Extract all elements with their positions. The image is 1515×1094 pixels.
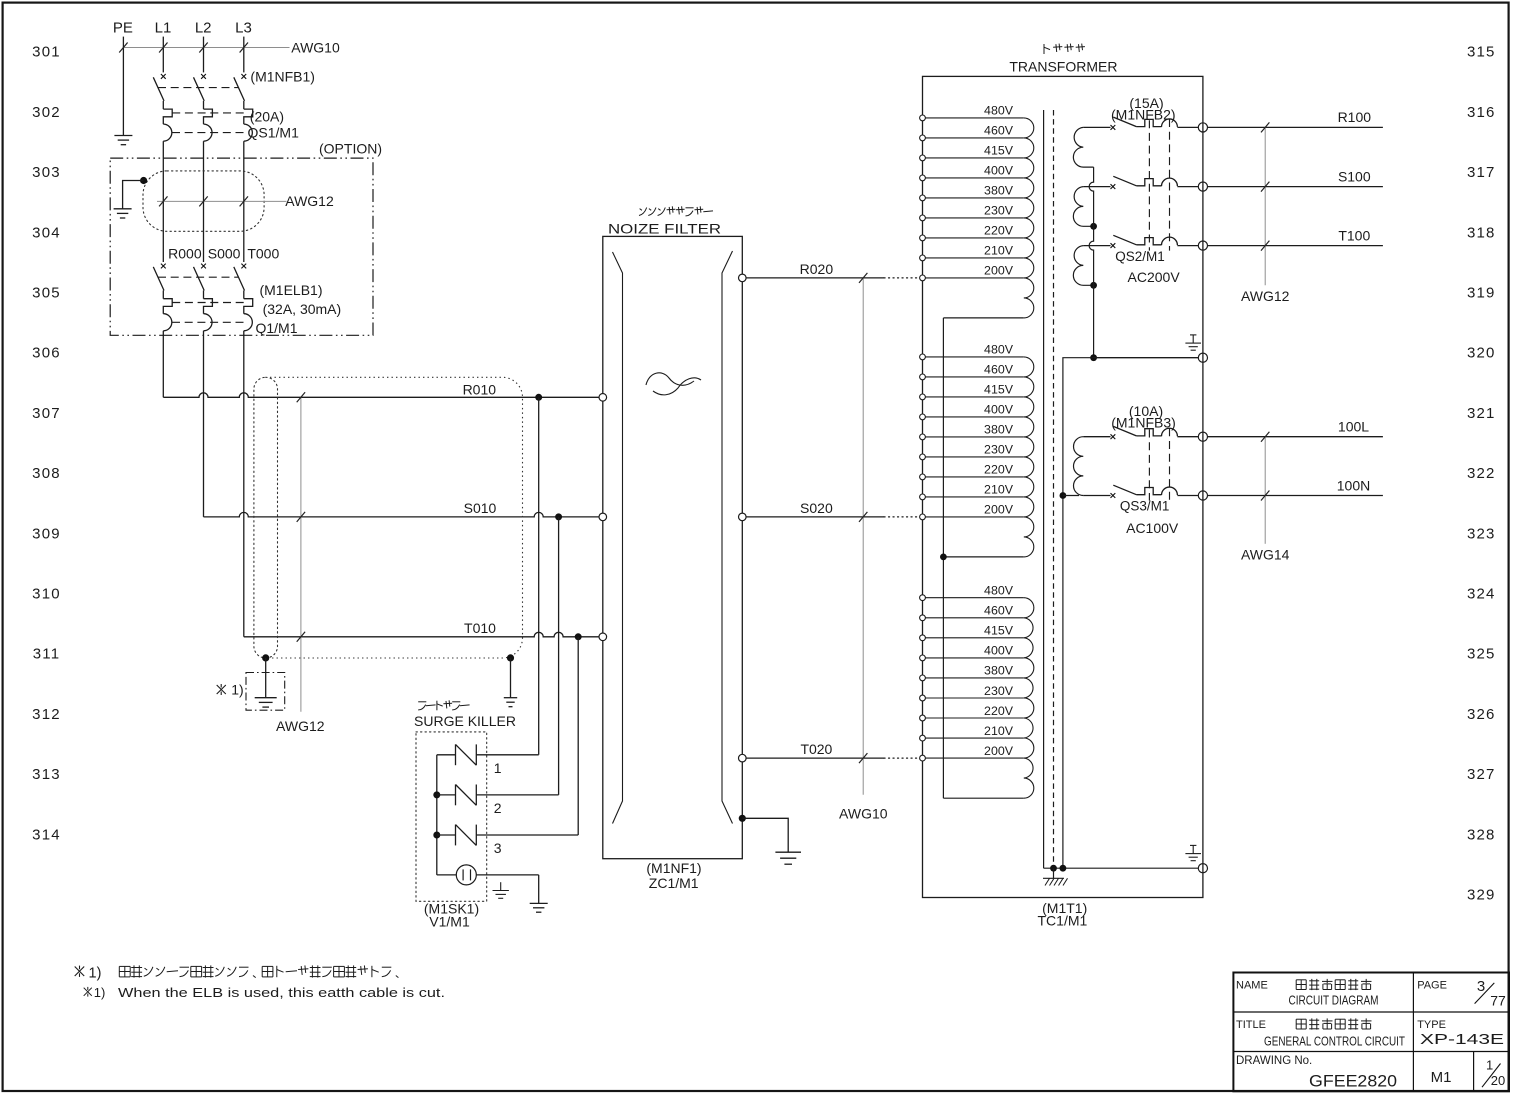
breaker QS2/M1 pole R100 xyxy=(1083,126,1110,128)
svg-text:318: 318 xyxy=(1467,224,1496,241)
terminal ground bottom xyxy=(1198,864,1207,873)
primary group2 tap line 230V xyxy=(923,456,1024,458)
svg-text:PE: PE xyxy=(113,20,133,37)
terminal group3 220V xyxy=(920,715,926,721)
svg-text:200V: 200V xyxy=(984,503,1014,517)
cable slash xyxy=(240,43,248,53)
ground note1 earth xyxy=(265,658,267,698)
core screen line solid xyxy=(1043,110,1045,868)
title block vline main xyxy=(1412,973,1414,1092)
svg-text:QS3/M1: QS3/M1 xyxy=(1120,498,1170,513)
svg-text:1: 1 xyxy=(494,760,502,776)
svg-text:S010: S010 xyxy=(464,500,497,516)
wire L3 QS1 to Q1 xyxy=(243,141,245,262)
svg-text:AWG10: AWG10 xyxy=(291,39,340,55)
svg-text:321: 321 xyxy=(1467,405,1496,422)
cable slash xyxy=(159,43,167,53)
terminal group2 380V xyxy=(920,434,926,440)
svg-text:S100: S100 xyxy=(1338,168,1371,184)
wire S100 out xyxy=(1208,186,1383,188)
svg-text:AWG12: AWG12 xyxy=(276,718,325,734)
wire neutral to ground terminal xyxy=(1094,357,1199,359)
svg-text:305: 305 xyxy=(32,285,61,302)
primary group2 tap line 380V xyxy=(923,436,1024,438)
svg-text:AC200V: AC200V xyxy=(1128,269,1181,285)
breaker QS3/M1 dash link 1 xyxy=(1148,430,1150,501)
svg-text:200V: 200V xyxy=(984,264,1014,278)
node coil T bus dot xyxy=(1090,282,1097,289)
svg-text:AWG12: AWG12 xyxy=(1241,288,1290,304)
terminal group3 415V xyxy=(920,635,926,641)
ground PE xyxy=(114,135,132,137)
svg-text:324: 324 xyxy=(1467,586,1496,603)
primary group3 winding arcs xyxy=(1024,598,1034,799)
terminal group1 200V xyxy=(920,275,926,281)
svg-text:480V: 480V xyxy=(984,104,1014,118)
wire PE vertical xyxy=(122,37,124,136)
terminal filter in S xyxy=(599,513,607,521)
svg-text:(OPTION): (OPTION) xyxy=(319,141,382,157)
core line dashed xyxy=(1053,110,1055,865)
svg-text:415V: 415V xyxy=(984,624,1014,638)
ground surge small floating xyxy=(500,882,502,890)
svg-text:380V: 380V xyxy=(984,423,1014,437)
svg-text:NOIZE FILTER: NOIZE FILTER xyxy=(608,221,721,237)
cable slash xyxy=(1261,241,1269,251)
cable shield loop (option) xyxy=(143,171,264,231)
terminal group1 380V xyxy=(920,195,926,201)
terminal R100 xyxy=(1198,123,1207,132)
wire L2 drop xyxy=(203,37,205,73)
noise filter wave symbol xyxy=(646,373,694,385)
svg-text:L1: L1 xyxy=(155,20,172,37)
svg-text:327: 327 xyxy=(1467,766,1496,783)
primary group3 tap line 230V xyxy=(923,697,1024,699)
cable shield stadium xyxy=(254,377,278,658)
shield bottom junction dot left xyxy=(262,654,269,661)
svg-text:1): 1) xyxy=(231,681,243,697)
node neutral bottom dot xyxy=(1060,865,1067,872)
cable slash xyxy=(1261,491,1269,501)
svg-text:R020: R020 xyxy=(800,261,834,277)
svg-text:400V: 400V xyxy=(984,644,1014,658)
terminal T100 xyxy=(1198,241,1207,250)
cable slash xyxy=(859,273,867,283)
wire S020 solid xyxy=(746,516,884,518)
shield earth junction dot xyxy=(140,177,147,184)
annotation line AWG12 vertical xyxy=(300,397,302,711)
svg-text:TYPE: TYPE xyxy=(1417,1019,1446,1031)
svg-text:R100: R100 xyxy=(1338,109,1372,125)
svg-text:AWG12: AWG12 xyxy=(285,193,334,209)
cable slash xyxy=(1261,122,1269,132)
breaker QS1/M1 pole 3 xyxy=(241,74,246,79)
wire 100L out xyxy=(1208,436,1383,438)
svg-text:QS2/M1: QS2/M1 xyxy=(1115,249,1165,264)
svg-text:210V: 210V xyxy=(984,244,1014,258)
svg-text:QS1/M1: QS1/M1 xyxy=(248,125,300,141)
terminal group1 400V xyxy=(920,175,926,181)
secondary neutral bus xyxy=(1089,167,1094,358)
svg-text:S000: S000 xyxy=(208,245,241,261)
svg-text:When the ELB is used, this eat: When the ELB is used, this eatth cable i… xyxy=(118,985,445,1000)
wire tube to ground xyxy=(538,875,540,904)
primary group1 tap line 210V xyxy=(923,257,1024,259)
primary neutral bus vertical xyxy=(942,318,944,798)
ground annotation row329 xyxy=(1190,844,1196,846)
terminal group3 380V xyxy=(920,675,926,681)
svg-text:314: 314 xyxy=(32,826,61,843)
wire S020 dotted tap link xyxy=(884,516,919,518)
breaker QS2/M1 pole S100 xyxy=(1083,186,1110,188)
wire 100N out xyxy=(1208,495,1383,497)
svg-text:230V: 230V xyxy=(984,443,1014,457)
terminal group1 210V xyxy=(920,255,926,261)
svg-text:400V: 400V xyxy=(984,403,1014,417)
terminal group2 480V xyxy=(920,354,926,360)
svg-text:317: 317 xyxy=(1467,164,1496,181)
svg-text:TITLE: TITLE xyxy=(1236,1019,1266,1031)
terminal 100L xyxy=(1198,432,1207,441)
wire surge 1 vertical xyxy=(538,397,540,755)
cable slash xyxy=(297,632,305,642)
breaker Q1/M1 pole 3 xyxy=(241,264,246,269)
terminal filter out T xyxy=(739,754,747,762)
svg-text:220V: 220V xyxy=(984,224,1014,238)
svg-text:380V: 380V xyxy=(984,184,1014,198)
filter ground wire xyxy=(742,818,788,852)
svg-text:306: 306 xyxy=(32,345,61,362)
node coil S bus dot xyxy=(1090,223,1097,230)
wire R020 solid xyxy=(746,277,884,279)
terminal group3 480V xyxy=(920,595,926,601)
terminal filter out R xyxy=(739,274,747,282)
breaker Q1/M1 pole 1 xyxy=(161,264,166,269)
svg-text:312: 312 xyxy=(32,706,61,723)
svg-text:210V: 210V xyxy=(984,483,1014,497)
surge killer left bus xyxy=(436,755,438,875)
cable slash xyxy=(159,196,167,206)
primary group2 tap line 210V xyxy=(923,496,1024,498)
primary group2 tap line 480V xyxy=(923,356,1024,358)
svg-text:DRAWING No.: DRAWING No. xyxy=(1236,1055,1312,1067)
annotation line AWG12 right xyxy=(1264,127,1266,285)
svg-text:T020: T020 xyxy=(800,741,832,757)
terminal group3 210V xyxy=(920,735,926,741)
wire R100 out xyxy=(1208,126,1383,128)
ground surge big xyxy=(530,902,548,904)
svg-text:100L: 100L xyxy=(1338,419,1369,435)
svg-text:M1: M1 xyxy=(1431,1069,1452,1086)
transformer TC1/M1 box xyxy=(923,76,1203,897)
terminal group1 480V xyxy=(920,115,926,121)
node T010 junction dot xyxy=(575,633,582,640)
primary group1 tap line 415V xyxy=(923,157,1024,159)
annotation line AWG14 right xyxy=(1264,437,1266,544)
note1 dash-dot box xyxy=(246,673,285,711)
svg-text:Q1/M1: Q1/M1 xyxy=(255,320,297,336)
svg-text:2: 2 xyxy=(494,800,502,816)
title block vline small xyxy=(1473,1052,1475,1092)
svg-text:(M1NFB1): (M1NFB1) xyxy=(250,68,315,84)
svg-text:220V: 220V xyxy=(984,463,1014,477)
svg-text:1): 1) xyxy=(89,965,102,981)
terminal group2 220V xyxy=(920,474,926,480)
secondary coil T (AC200V) xyxy=(1073,246,1093,286)
breaker Q1/M1 link dash magnetic xyxy=(172,321,246,323)
wire T010 xyxy=(244,632,599,637)
svg-text:460V: 460V xyxy=(984,124,1014,138)
svg-text:(M1NF1): (M1NF1) xyxy=(646,860,701,876)
svg-text:400V: 400V xyxy=(984,164,1014,178)
svg-text:XP-143E: XP-143E xyxy=(1420,1031,1504,1048)
terminal group2 230V xyxy=(920,454,926,460)
primary group3 tap line 460V xyxy=(923,617,1024,619)
breaker QS1/M1 link dash magnetic xyxy=(172,132,246,134)
breaker QS1/M1 pole 2 xyxy=(201,74,206,79)
secondary coil S (AC200V) xyxy=(1073,187,1093,227)
node 100N junction dot xyxy=(1060,492,1067,499)
primary group1 winding arcs xyxy=(1024,118,1034,318)
breaker QS1/M1 pole 1 xyxy=(161,74,166,79)
terminal group3 400V xyxy=(920,655,926,661)
arrester element 2 xyxy=(437,794,456,796)
svg-text:CIRCUIT DIAGRAM: CIRCUIT DIAGRAM xyxy=(1289,994,1379,1008)
svg-text:T010: T010 xyxy=(464,620,496,636)
title block hline1 xyxy=(1233,1011,1509,1013)
svg-text:R010: R010 xyxy=(463,381,497,397)
breaker Q1/M1 pole 2 xyxy=(201,264,206,269)
primary group1 tap line 220V xyxy=(923,237,1024,239)
wire L1 QS1 to Q1 xyxy=(162,141,164,262)
node surge bus dot 3 xyxy=(433,832,440,839)
label transformer jp xyxy=(1043,44,1045,54)
svg-text:380V: 380V xyxy=(984,664,1014,678)
primary group2 tail xyxy=(943,556,1023,558)
svg-text:316: 316 xyxy=(1467,104,1496,121)
svg-text:ZC1/M1: ZC1/M1 xyxy=(649,875,699,891)
terminal group2 400V xyxy=(920,414,926,420)
terminal group3 200V xyxy=(920,755,926,761)
node secondary neutral dot xyxy=(1090,354,1097,361)
svg-text:3: 3 xyxy=(494,840,502,856)
primary group2 tap line 415V xyxy=(923,396,1024,398)
label name jp xyxy=(1296,979,1306,981)
surge killer dotted box xyxy=(416,732,487,901)
breaker QS2/M1 dash link 2 xyxy=(1169,119,1171,251)
terminal group2 200V xyxy=(920,514,926,520)
cable slash xyxy=(1261,432,1269,442)
annotation line AWG10 vertical xyxy=(862,278,864,795)
label title jp xyxy=(1296,1018,1306,1020)
wire transformer bottom earth xyxy=(1044,867,1199,869)
svg-text:(M1ELB1): (M1ELB1) xyxy=(259,282,322,298)
ground chassis hatched xyxy=(1053,868,1055,878)
primary group3 tap line 200V xyxy=(923,757,1024,759)
svg-text:AWG10: AWG10 xyxy=(839,806,888,822)
wire S010 xyxy=(204,512,600,517)
node S010 junction dot xyxy=(555,513,562,520)
svg-text:329: 329 xyxy=(1467,887,1496,904)
noise filter inner bracket right xyxy=(722,251,733,824)
node core screen dot xyxy=(1050,865,1057,872)
annotation line AWG12 option xyxy=(157,200,287,202)
cable slash xyxy=(199,196,207,206)
primary group2 tap line 220V xyxy=(923,476,1024,478)
primary group1 tap line 200V xyxy=(923,277,1024,279)
terminal group1 460V xyxy=(920,135,926,141)
primary group1 tail xyxy=(943,317,1023,319)
primary group2 winding arcs xyxy=(1024,357,1034,557)
shield bottom junction dot right xyxy=(507,654,514,661)
breaker Q1/M1 link dash thermal xyxy=(172,302,246,304)
cable slash xyxy=(199,43,207,53)
primary group3 tap line 380V xyxy=(923,677,1024,679)
arrester element 3 xyxy=(437,834,456,836)
terminal S100 xyxy=(1198,182,1207,191)
svg-text:200V: 200V xyxy=(984,744,1014,758)
primary group2 tap line 400V xyxy=(923,416,1024,418)
wire 100N from neutral xyxy=(1063,495,1079,497)
svg-text:S020: S020 xyxy=(800,500,833,516)
primary group3 tap line 210V xyxy=(923,737,1024,739)
terminal filter out S xyxy=(739,513,747,521)
terminal ground 320 xyxy=(1198,353,1207,362)
svg-text:NAME: NAME xyxy=(1236,980,1268,992)
breaker Q1/M1 link dash lever xyxy=(158,276,239,278)
filter ground terminal dot xyxy=(739,815,746,822)
cable slash xyxy=(1261,182,1269,192)
wire neutral left-down xyxy=(1063,358,1094,869)
ground shield right xyxy=(510,658,512,698)
svg-text:307: 307 xyxy=(32,405,61,422)
svg-text:SURGE KILLER: SURGE KILLER xyxy=(414,713,516,729)
wire L3 drop xyxy=(243,37,245,73)
wire R020 dotted tap link xyxy=(884,277,919,279)
breaker QS3/M1 pole 100N xyxy=(1083,495,1110,497)
svg-text:AWG14: AWG14 xyxy=(1241,547,1290,563)
cable slash xyxy=(297,512,305,522)
svg-text:AC100V: AC100V xyxy=(1126,520,1179,536)
wire T100 out xyxy=(1208,245,1383,247)
node surge bus dot 2 xyxy=(433,791,440,798)
primary group1 tap line 380V xyxy=(923,197,1024,199)
primary group1 tap line 230V xyxy=(923,217,1024,219)
svg-text:(32A, 30mA): (32A, 30mA) xyxy=(263,301,342,317)
svg-text:(M1NFB2): (M1NFB2) xyxy=(1111,107,1176,123)
note1 english text xyxy=(84,988,92,996)
ground annotation row320 xyxy=(1190,334,1196,336)
discharge tube element xyxy=(437,874,457,876)
wire T020 dotted tap link xyxy=(884,757,919,759)
ground filter xyxy=(775,851,801,853)
svg-text:V1/M1: V1/M1 xyxy=(429,914,470,930)
note1 japanese text xyxy=(75,967,85,977)
svg-text:L3: L3 xyxy=(235,20,252,37)
ground option shield xyxy=(114,208,132,210)
svg-text:309: 309 xyxy=(32,525,61,542)
svg-text:319: 319 xyxy=(1467,285,1496,302)
wire surge 3 vertical xyxy=(577,637,579,835)
cable slash xyxy=(119,43,127,53)
label note1 mark xyxy=(217,685,226,694)
node primary neutral dot xyxy=(940,554,947,561)
wire T drop to T010 xyxy=(243,331,245,637)
primary group1 tap line 480V xyxy=(923,117,1024,119)
svg-text:TRANSFORMER: TRANSFORMER xyxy=(1009,59,1117,75)
svg-text:1): 1) xyxy=(94,985,106,1000)
primary group3 tap line 415V xyxy=(923,637,1024,639)
terminal 100N xyxy=(1198,491,1207,500)
svg-text:1: 1 xyxy=(1486,1058,1493,1073)
cable slash xyxy=(859,512,867,522)
arrester element 1 xyxy=(437,754,456,756)
svg-text:77: 77 xyxy=(1490,992,1506,1008)
cable slash xyxy=(297,392,305,402)
svg-text:322: 322 xyxy=(1467,465,1496,482)
svg-text:T000: T000 xyxy=(247,245,279,261)
secondary coil R (AC200V) xyxy=(1073,127,1093,167)
svg-text:480V: 480V xyxy=(984,584,1014,598)
breaker QS3/M1 dash link 2 xyxy=(1169,428,1171,500)
svg-text:230V: 230V xyxy=(984,204,1014,218)
cable slash xyxy=(240,196,248,206)
terminal group3 460V xyxy=(920,615,926,621)
svg-text:T100: T100 xyxy=(1338,227,1370,243)
wire S drop to S010 xyxy=(203,331,205,517)
svg-text:313: 313 xyxy=(32,766,61,783)
primary group3 tap line 400V xyxy=(923,657,1024,659)
cable shield outline xyxy=(270,377,523,658)
svg-text:326: 326 xyxy=(1467,706,1496,723)
svg-text:328: 328 xyxy=(1467,826,1496,843)
wire L2 QS1 to Q1 xyxy=(203,141,205,262)
terminal group1 415V xyxy=(920,155,926,161)
terminal group2 460V xyxy=(920,374,926,380)
primary group1 tap line 400V xyxy=(923,177,1024,179)
svg-text:303: 303 xyxy=(32,164,61,181)
svg-text:460V: 460V xyxy=(984,363,1014,377)
primary group1 tap line 460V xyxy=(923,137,1024,139)
svg-text:GFEE2820: GFEE2820 xyxy=(1309,1072,1397,1091)
primary group3 tap line 220V xyxy=(923,717,1024,719)
wire T020 solid xyxy=(746,757,884,759)
breaker QS1/M1 link dash lever xyxy=(158,87,239,89)
OPTION enclosure box xyxy=(110,158,373,335)
svg-text:20: 20 xyxy=(1491,1073,1505,1088)
svg-text:325: 325 xyxy=(1467,646,1496,663)
terminal group1 220V xyxy=(920,235,926,241)
primary group2 tap line 460V xyxy=(923,376,1024,378)
annotation line AWG10 top xyxy=(123,47,289,49)
primary group3 tail xyxy=(943,797,1023,799)
svg-text:3: 3 xyxy=(1477,978,1485,995)
svg-text:(20A): (20A) xyxy=(250,109,284,125)
label surge killer jp xyxy=(418,701,426,703)
svg-text:230V: 230V xyxy=(984,684,1014,698)
node R010 junction dot xyxy=(535,394,542,401)
svg-text:100N: 100N xyxy=(1337,477,1370,493)
svg-text:311: 311 xyxy=(33,646,61,663)
svg-text:210V: 210V xyxy=(984,724,1014,738)
primary group2 tap line 200V xyxy=(923,516,1024,518)
wire surge 2 vertical xyxy=(558,517,560,795)
svg-text:TC1/M1: TC1/M1 xyxy=(1038,912,1088,928)
terminal group2 210V xyxy=(920,494,926,500)
terminal group2 415V xyxy=(920,394,926,400)
terminal filter in T xyxy=(599,633,607,641)
title block frame xyxy=(1233,973,1509,1092)
